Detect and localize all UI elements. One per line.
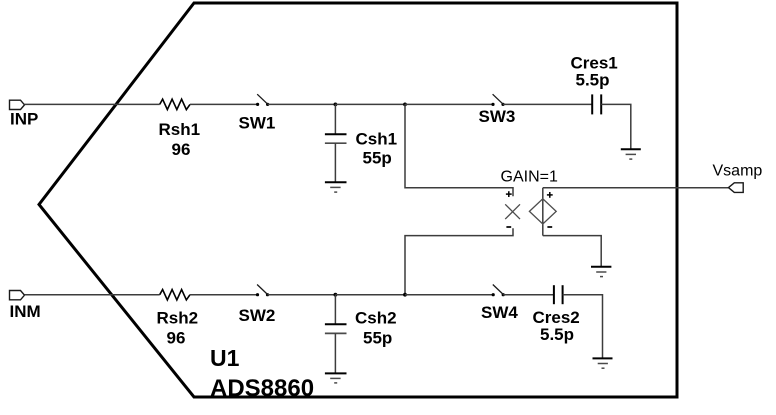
designator U1 (210, 345, 240, 371)
switch SW3 (491, 94, 504, 106)
label INP (10, 110, 38, 129)
terminal INP (10, 100, 25, 109)
wire SW1 to node A (268, 103, 336, 105)
wire INM to Rsh2 (25, 294, 160, 296)
value 5.5p (Cres1) (576, 71, 610, 90)
wire node D to node C (335, 294, 405, 296)
ground (Cres1) (621, 149, 641, 159)
svg-text:ADS8860: ADS8860 (210, 375, 314, 402)
wire VCVS sense - down-left to node C (405, 228, 513, 294)
wire node C to SW4 (405, 294, 493, 296)
switch SW1 (256, 94, 269, 106)
wire SW3 to Cres1 (503, 103, 592, 105)
ground (Csh2) (325, 373, 347, 383)
svg-text:55p: 55p (363, 329, 392, 348)
svg-text:SW3: SW3 (479, 107, 516, 126)
label Vsamp (713, 163, 763, 180)
ground (Csh1) (325, 182, 347, 192)
wire Rsh1 to SW1 (190, 103, 258, 105)
terminal Vsamp (729, 183, 744, 193)
ground (Cres2) (593, 358, 613, 368)
svg-text:SW2: SW2 (239, 306, 276, 325)
part number ADS8860 (210, 375, 314, 402)
capacitor Cres2 (554, 285, 563, 304)
value 96 (Rsh2) (167, 329, 186, 348)
label Csh2 (355, 309, 397, 328)
svg-text:SW1: SW1 (239, 114, 276, 133)
svg-text:5.5p: 5.5p (576, 71, 610, 90)
value 5.5p (Cres2) (540, 325, 574, 344)
svg-text:Rsh2: Rsh2 (157, 309, 199, 328)
value 55p (Csh2) (363, 329, 392, 348)
wire node B to SW3 (405, 103, 493, 105)
node A (junction top of Csh1) (334, 103, 338, 107)
label Rsh2 (157, 309, 199, 328)
node B (junction top tap to VCVS) (403, 103, 407, 107)
terminal INM (10, 291, 25, 300)
label SW4 (481, 303, 518, 322)
svg-text:GAIN=1: GAIN=1 (501, 169, 558, 186)
wire Cres1 to ground (601, 104, 631, 148)
label INM (10, 302, 41, 321)
label Cres1 (571, 54, 618, 73)
switch SW2 (256, 285, 269, 297)
label SW3 (479, 107, 516, 126)
svg-text:SW4: SW4 (481, 303, 518, 322)
label GAIN=1 (501, 169, 558, 186)
svg-text:INP: INP (10, 110, 38, 129)
svg-text:55p: 55p (363, 149, 392, 168)
label SW2 (239, 306, 276, 325)
svg-text:Vsamp: Vsamp (713, 163, 763, 180)
capacitor Cres1 (592, 94, 601, 114)
svg-text:96: 96 (172, 140, 191, 159)
resistor Rsh1 (160, 99, 190, 109)
svg-text:Csh1: Csh1 (356, 130, 398, 149)
wire SW2 to node D (268, 294, 336, 296)
label Csh1 (356, 130, 398, 149)
VCVS E1 sense port (X symbol with + / -) (505, 191, 520, 227)
svg-text:96: 96 (167, 329, 186, 348)
VCVS E1 controlled source (diamond with + / -) (529, 188, 556, 236)
capacitor Csh2 (325, 295, 347, 373)
switch SW4 (492, 285, 505, 297)
svg-text:INM: INM (10, 302, 41, 321)
value 96 (Rsh1) (172, 140, 191, 159)
wire VCVS output to Vsamp (543, 187, 729, 189)
svg-text:Rsh1: Rsh1 (159, 120, 201, 139)
ground (VCVS) (591, 267, 611, 277)
svg-text:Csh2: Csh2 (355, 309, 397, 328)
wire SW4 to Cres2 (503, 294, 554, 296)
node C (junction bottom tap to VCVS) (403, 293, 407, 297)
wire Cres2 to ground (563, 295, 603, 358)
svg-text:U1: U1 (210, 345, 240, 371)
svg-text:5.5p: 5.5p (540, 325, 574, 344)
capacitor Csh1 (325, 104, 347, 181)
value 55p (Csh1) (363, 149, 392, 168)
node D (junction top of Csh2) (334, 293, 338, 297)
wire INP to Rsh1 (25, 103, 160, 105)
resistor Rsh2 (160, 290, 190, 300)
wire node A to node B (335, 103, 405, 105)
IC boundary U1 (ADS8860 pentagon outline) (39, 3, 677, 397)
wire VCVS output - to ground (543, 236, 601, 266)
wire Rsh2 to SW2 (190, 294, 258, 296)
wire node B down to VCVS sense + (405, 104, 513, 196)
label Cres2 (533, 308, 580, 327)
label Rsh1 (159, 120, 201, 139)
label SW1 (239, 114, 276, 133)
